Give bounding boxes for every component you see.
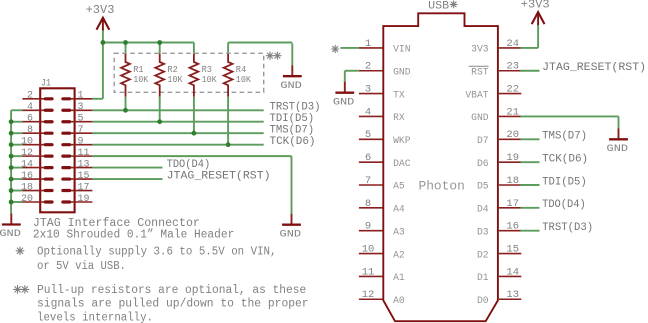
svg-text:RST: RST	[471, 66, 489, 77]
svg-text:GND: GND	[280, 80, 302, 92]
Photon pin 13 D0	[477, 289, 521, 306]
wire Photon pin24 to +3V3	[521, 47, 539, 49]
svg-text:JTAG_RESET(RST): JTAG_RESET(RST)	[167, 171, 271, 183]
svg-text:4: 4	[27, 102, 33, 113]
wire TMS(D7)	[92, 132, 263, 134]
IC U1 Photon body	[383, 13, 498, 321]
J1 pins 8/7	[22, 132, 52, 134]
svg-text:J1: J1	[41, 78, 51, 90]
svg-text:VIN: VIN	[393, 44, 411, 55]
RST overline	[469, 65, 489, 67]
resistor R4 10K	[224, 54, 251, 97]
svg-text:15: 15	[78, 171, 90, 182]
svg-text:R4: R4	[236, 64, 247, 75]
Photon pin 3 TX	[359, 84, 405, 101]
ground (Photon pin 21)	[607, 127, 629, 154]
svg-text:Photon: Photon	[419, 179, 465, 194]
J1 pins 14/13	[22, 167, 52, 169]
svg-text:14: 14	[21, 159, 33, 170]
junction R3/TMS	[192, 131, 197, 136]
svg-text:GND: GND	[393, 66, 411, 77]
svg-text:WKP: WKP	[393, 135, 411, 146]
+3V3 power symbol (left)	[86, 4, 115, 31]
svg-text:9: 9	[78, 136, 84, 147]
wire J1 pin10 to gnd bus	[11, 144, 22, 146]
svg-text:18: 18	[21, 182, 33, 193]
junction R4/TCK	[226, 142, 231, 147]
svg-text:19: 19	[78, 194, 90, 205]
svg-text:A1: A1	[393, 272, 405, 283]
svg-text:20: 20	[21, 194, 33, 205]
wire J1 pin18 to gnd bus	[11, 190, 22, 192]
svg-text:17: 17	[506, 198, 519, 210]
svg-text:9: 9	[365, 221, 371, 233]
svg-text:5: 5	[365, 129, 371, 141]
svg-text:10K: 10K	[202, 74, 217, 85]
Photon pin 19 D6	[477, 152, 521, 169]
svg-text:D3: D3	[477, 226, 489, 237]
svg-text:TMS(D7): TMS(D7)	[270, 125, 315, 137]
svg-text:USB: USB	[428, 0, 450, 12]
svg-text:D2: D2	[477, 249, 489, 260]
Photon pin 11 A1	[359, 266, 405, 283]
svg-text:TRST(D3): TRST(D3)	[270, 102, 321, 114]
wire TDI(D5) pin	[521, 184, 540, 186]
svg-text:10K: 10K	[167, 74, 182, 85]
svg-text:Optionally supply 3.6 to 5.5V: Optionally supply 3.6 to 5.5V on VIN,	[37, 245, 277, 258]
svg-text:GND: GND	[333, 96, 355, 108]
junction gnd bus row 8	[9, 177, 14, 182]
svg-text:2x10 Shrouded 0.1” Male Header: 2x10 Shrouded 0.1” Male Header	[33, 229, 234, 242]
svg-text:16: 16	[21, 171, 33, 182]
Photon pin 24 3V3	[471, 38, 521, 55]
ground (Photon pin 2)	[333, 81, 355, 109]
svg-text:22: 22	[506, 84, 519, 96]
svg-text:6: 6	[365, 152, 371, 164]
svg-text:7: 7	[78, 125, 84, 136]
+3V3 power symbol (right)	[521, 0, 550, 25]
svg-text:R1: R1	[133, 64, 144, 75]
svg-text:3V3: 3V3	[471, 44, 489, 55]
svg-text:A5: A5	[393, 181, 405, 192]
svg-text:TCK(D6): TCK(D6)	[542, 153, 588, 165]
svg-text:D1: D1	[477, 272, 489, 283]
wire J1 pin4 to gnd bus	[11, 109, 22, 111]
wire J1 pin1 to +3V3 riser	[92, 98, 103, 100]
svg-text:DAC: DAC	[393, 158, 411, 169]
svg-text:TDO(D4): TDO(D4)	[167, 159, 211, 171]
wire TCK(D6)	[92, 144, 263, 146]
svg-text:21: 21	[506, 106, 519, 118]
wire TRST(D3)	[92, 109, 263, 111]
svg-text:18: 18	[506, 175, 519, 187]
wire Photon pin21 GND	[521, 115, 619, 117]
svg-text:10: 10	[21, 136, 33, 147]
svg-text:TCK(D6): TCK(D6)	[270, 136, 316, 148]
Photon pin 10 A2	[359, 243, 405, 260]
wire J1 pin6 to gnd bus	[11, 121, 22, 123]
J1 pins 6/5	[22, 121, 52, 123]
resistor R2 10K	[155, 54, 182, 97]
J1 pins 12/11	[22, 155, 52, 157]
wire R2 bottom drop	[159, 97, 161, 122]
wire R1 top riser	[125, 43, 127, 54]
svg-text:10: 10	[362, 243, 375, 255]
svg-text:TDO(D4): TDO(D4)	[542, 199, 586, 211]
Photon pin 14 D1	[477, 266, 521, 283]
note: pull-up resistors	[37, 284, 309, 323]
Photon pin 15 D2	[477, 243, 521, 260]
svg-text:10K: 10K	[133, 74, 148, 85]
svg-text:RX: RX	[393, 112, 405, 123]
junction R2/TDI	[157, 119, 162, 124]
svg-text:+3V3: +3V3	[86, 4, 115, 17]
ground (J1 pin 11)	[280, 213, 302, 240]
svg-text:23: 23	[506, 61, 519, 73]
svg-text:10K: 10K	[236, 74, 251, 85]
svg-text:13: 13	[78, 159, 90, 170]
svg-text:TMS(D7): TMS(D7)	[542, 131, 587, 143]
svg-text:2: 2	[365, 61, 371, 73]
junction R2 top	[157, 40, 162, 45]
svg-text:GND: GND	[280, 228, 302, 240]
svg-text:4: 4	[365, 106, 371, 118]
svg-text:signals are pulled up/down to: signals are pulled up/down to the proper	[37, 298, 309, 311]
svg-text:11: 11	[78, 148, 90, 159]
Photon pin 22 VBAT	[465, 84, 521, 101]
wire TMS(D7) pin	[521, 138, 540, 140]
J1 pins 20/19	[22, 201, 52, 203]
Photon pin 12 A0	[359, 289, 405, 306]
wire TRST(D3) pin	[521, 230, 540, 232]
note: optionally supply	[37, 245, 277, 273]
svg-text:13: 13	[506, 289, 519, 301]
wire R2 top riser	[159, 43, 161, 54]
svg-text:8: 8	[27, 125, 33, 136]
junction gnd bus row 7	[9, 165, 14, 170]
J1 pins 2/1	[22, 98, 52, 100]
wire +3V3 vertical to J1 pin 1	[102, 31, 104, 99]
svg-text:A2: A2	[393, 249, 405, 260]
Photon pin 1 VIN	[359, 38, 411, 55]
svg-text:14: 14	[506, 266, 519, 278]
resistor R1 10K	[121, 54, 148, 97]
J1 pins 16/15	[22, 178, 52, 180]
svg-text:TDI(D5): TDI(D5)	[542, 176, 587, 188]
svg-text:or 5V via USB.: or 5V via USB.	[37, 260, 126, 273]
wire JTAG_RESET stub	[92, 178, 162, 180]
wire R1 bottom drop	[125, 97, 127, 110]
svg-text:1: 1	[78, 91, 84, 102]
Photon pin 23 RST	[471, 61, 521, 78]
wire J1 pin11 to ground	[92, 155, 291, 157]
Photon pin 17 D4	[477, 198, 521, 215]
wire R4 top to GND	[228, 42, 292, 44]
wire J1 pin20 to gnd bus	[11, 201, 22, 203]
svg-text:TDI(D5): TDI(D5)	[270, 113, 315, 125]
connector J1 2x10 header	[21, 78, 92, 213]
wire R3 bottom drop	[193, 97, 195, 133]
svg-text:GND: GND	[471, 112, 489, 123]
Photon pin 6 DAC	[359, 152, 411, 169]
svg-text:GND: GND	[0, 228, 21, 240]
J1 pins 4/3	[22, 109, 52, 111]
wire TDO(D4) pin	[521, 207, 540, 209]
junction gnd bus row 5	[9, 142, 14, 147]
svg-text:3: 3	[78, 102, 84, 113]
svg-text:R3: R3	[202, 64, 213, 75]
Photon pin 9 A3	[359, 221, 405, 238]
svg-text:levels internally.: levels internally.	[37, 312, 153, 323]
USB* label	[428, 0, 457, 12]
wire R3 top riser	[193, 43, 195, 54]
Photon pin 20 D7	[477, 129, 521, 146]
svg-text:D5: D5	[477, 181, 489, 192]
wire TCK(D6) pin	[521, 161, 540, 163]
wire TDO(D4) stub	[92, 167, 162, 169]
svg-text:1: 1	[365, 38, 371, 50]
wire J1 pin12 to gnd bus	[11, 155, 22, 157]
junction gnd bus row 4	[9, 131, 14, 136]
J1 description text	[33, 217, 234, 241]
Photon pin 16 D3	[477, 221, 521, 238]
svg-text:15: 15	[506, 243, 519, 255]
svg-text:12: 12	[362, 289, 375, 301]
note ** marker	[14, 286, 29, 294]
svg-text:19: 19	[506, 152, 519, 164]
Photon pin 21 GND	[471, 106, 521, 123]
svg-text:24: 24	[506, 38, 519, 50]
Photon pin 2 GND	[359, 61, 411, 78]
junction gnd bus row 6	[9, 154, 14, 159]
svg-text:D4: D4	[477, 204, 489, 215]
svg-text:VBAT: VBAT	[465, 89, 488, 100]
Photon pin 5 WKP	[359, 129, 411, 146]
svg-text:8: 8	[365, 198, 371, 210]
svg-text:2: 2	[27, 91, 33, 102]
junction R1/TRST	[123, 108, 128, 113]
wire Photon pin2 GND	[345, 70, 359, 72]
J1 pins 18/17	[22, 190, 52, 192]
wire Photon pin1 VIN stub to *	[340, 47, 359, 49]
wire J1 pin8 to gnd bus	[11, 132, 22, 134]
svg-text:Pull-up resistors are optional: Pull-up resistors are optional, as these	[37, 284, 306, 297]
wire gnd bus vertical	[10, 110, 12, 214]
Photon pin 8 A4	[359, 198, 405, 215]
svg-text:D0: D0	[477, 295, 489, 306]
* marker at VIN	[332, 45, 339, 52]
optional pull-up dashed box	[114, 53, 264, 92]
svg-text:11: 11	[362, 266, 375, 278]
note * marker	[16, 247, 24, 255]
junction R1 top	[123, 40, 128, 45]
J1 pins 10/9	[22, 144, 52, 146]
wire R4 bottom drop	[227, 97, 229, 145]
Photon pin 4 RX	[359, 106, 405, 123]
svg-text:R2: R2	[167, 64, 178, 75]
svg-text:7: 7	[365, 175, 371, 187]
wire R4 top riser	[227, 43, 229, 54]
svg-text:+3V3: +3V3	[521, 0, 550, 11]
ground (J1 even pins)	[0, 213, 21, 240]
junction gnd bus row 10	[9, 200, 14, 205]
svg-text:JTAG_RESET(RST): JTAG_RESET(RST)	[542, 62, 646, 74]
svg-text:A0: A0	[393, 295, 405, 306]
Photon pin 7 A5	[359, 175, 405, 192]
wire TDI(D5)	[92, 121, 263, 123]
ground (pull-down R4)	[280, 44, 302, 92]
svg-text:3: 3	[365, 84, 371, 96]
svg-text:A3: A3	[393, 226, 405, 237]
svg-text:TRST(D3): TRST(D3)	[542, 222, 593, 234]
svg-text:17: 17	[78, 182, 90, 193]
svg-text:GND: GND	[607, 143, 629, 155]
svg-text:16: 16	[506, 221, 519, 233]
svg-text:D6: D6	[477, 158, 489, 169]
wire J1 pin14 to gnd bus	[11, 167, 22, 169]
svg-text:6: 6	[27, 114, 33, 125]
junction gnd bus row 9	[9, 188, 14, 193]
junction gnd bus row 3	[9, 119, 14, 124]
wire J1 pin16 to gnd bus	[11, 178, 22, 180]
svg-text:TX: TX	[393, 89, 405, 100]
svg-text:12: 12	[21, 148, 33, 159]
wire JTAG_RESET(RST) pin23	[521, 70, 540, 72]
junction +3V3/pin1	[101, 40, 106, 45]
svg-text:A4: A4	[393, 204, 405, 215]
resistor R3 10K	[190, 54, 217, 97]
svg-text:5: 5	[78, 114, 84, 125]
wire +3V3 horizontal to resistor tops	[103, 42, 194, 44]
svg-text:D7: D7	[477, 135, 489, 146]
svg-text:20: 20	[506, 129, 519, 141]
Photon pin 18 D5	[477, 175, 521, 192]
